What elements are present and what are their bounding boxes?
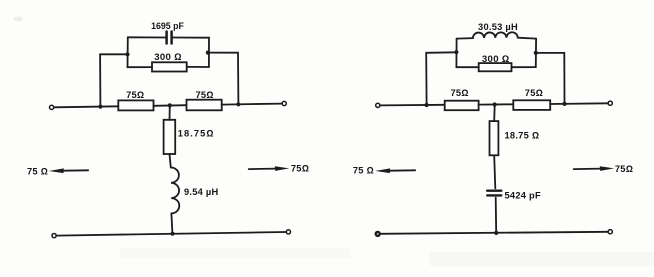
resistor R 75ohm right (series) <box>187 100 222 111</box>
arrow right 75ohm <box>249 168 276 171</box>
terminal right-bottom port <box>608 230 612 234</box>
terminal right-top port <box>608 101 612 105</box>
svg-text:9.54 µH: 9.54 µH <box>184 187 219 197</box>
node junction bottom <box>170 232 174 236</box>
node junction main-right <box>236 102 240 106</box>
wire bottom branch right <box>512 66 536 68</box>
svg-text:1695 pF: 1695 pF <box>151 21 184 31</box>
terminal left-top port <box>50 105 54 109</box>
wire loop left vertical <box>127 37 129 67</box>
svg-text:300 Ω: 300 Ω <box>154 52 182 63</box>
svg-text:30.53 µH: 30.53 µH <box>478 22 518 32</box>
capacitor C 5424pF plates <box>487 189 501 191</box>
node junction mid (shunt tap) <box>168 103 172 107</box>
terminal right-top port <box>282 101 286 105</box>
svg-text:18.75Ω: 18.75Ω <box>178 128 215 138</box>
wire coil to bottom line <box>171 214 172 234</box>
wire bottom branch right <box>187 66 209 68</box>
wire capacitor to bottom line <box>495 198 498 234</box>
terminal left-top port <box>376 103 380 107</box>
wire R2 to right terminal <box>222 104 282 105</box>
inductor L 9.54uH <box>171 167 179 213</box>
wire shunt tap down <box>169 105 171 119</box>
node loop-right <box>206 51 210 55</box>
terminal right-bottom port <box>286 230 290 234</box>
wire bottom branch left <box>456 66 478 68</box>
wire loop left vertical <box>455 39 457 68</box>
svg-text:75Ω: 75Ω <box>195 90 213 100</box>
svg-text:300 Ω: 300 Ω <box>482 54 510 65</box>
wire resistor to coil <box>170 154 171 168</box>
svg-text:75Ω: 75Ω <box>126 90 144 100</box>
resistor R 300ohm <box>479 63 512 71</box>
node loop-right <box>534 51 538 55</box>
svg-text:75 Ω: 75 Ω <box>353 165 374 175</box>
wire riser right <box>208 53 238 105</box>
svg-text:75Ω: 75Ω <box>615 164 633 174</box>
wire riser right <box>536 53 564 104</box>
faint scan smudges <box>13 17 23 22</box>
arrow left 75ohm <box>390 169 416 171</box>
wire riser left <box>426 52 456 105</box>
inductor L 30.53uH <box>473 32 518 38</box>
node loop-left <box>454 50 458 54</box>
capacitor C 1695pF plates <box>165 32 168 44</box>
wire loop right vertical <box>208 38 210 67</box>
node junction main-left <box>98 105 102 109</box>
node junction main-right <box>562 102 566 106</box>
svg-text:18.75 Ω: 18.75 Ω <box>505 131 540 141</box>
resistor R 18.75ohm (shunt) <box>490 121 499 155</box>
svg-text:75Ω: 75Ω <box>450 88 468 98</box>
resistor R 300ohm <box>152 62 187 71</box>
node junction bottom <box>494 231 498 235</box>
wire bottom line <box>380 232 608 234</box>
wire main line: left terminal to R1 <box>54 106 118 107</box>
wire top branch right <box>173 37 209 39</box>
wire top branch left <box>457 37 473 40</box>
svg-text:75Ω: 75Ω <box>291 164 309 174</box>
wire between series resistors <box>479 103 514 105</box>
resistor R 75ohm right (series) <box>513 100 550 110</box>
node junction main-left <box>425 103 429 107</box>
resistor R 75ohm left (series) <box>118 100 153 110</box>
wire top branch left <box>128 36 166 38</box>
node junction mid (shunt tap) <box>493 102 497 106</box>
arrow left 75ohm <box>63 169 88 171</box>
wire bottom line <box>56 232 286 236</box>
svg-text:75Ω: 75Ω <box>525 88 543 98</box>
wire bottom branch left <box>128 66 153 68</box>
node loop-left <box>125 52 129 56</box>
terminal left-bottom port <box>376 232 380 236</box>
wire R2 to right terminal <box>550 102 608 105</box>
wire loop right vertical <box>535 39 537 68</box>
wire riser left <box>100 54 127 106</box>
wire top branch right <box>518 37 536 40</box>
resistor R 75ohm left (series) <box>445 101 479 111</box>
wire main line: left terminal to R1 <box>380 104 445 107</box>
resistor R 18.75ohm (shunt) <box>164 120 176 154</box>
terminal left-bottom port <box>52 234 56 238</box>
svg-text:75 Ω: 75 Ω <box>27 167 48 177</box>
arrow right 75ohm <box>574 168 601 171</box>
svg-text:5424 pF: 5424 pF <box>505 190 541 200</box>
wire between series resistors <box>154 104 187 107</box>
wire resistor to capacitor <box>494 155 495 188</box>
wire shunt tap down <box>493 105 496 122</box>
